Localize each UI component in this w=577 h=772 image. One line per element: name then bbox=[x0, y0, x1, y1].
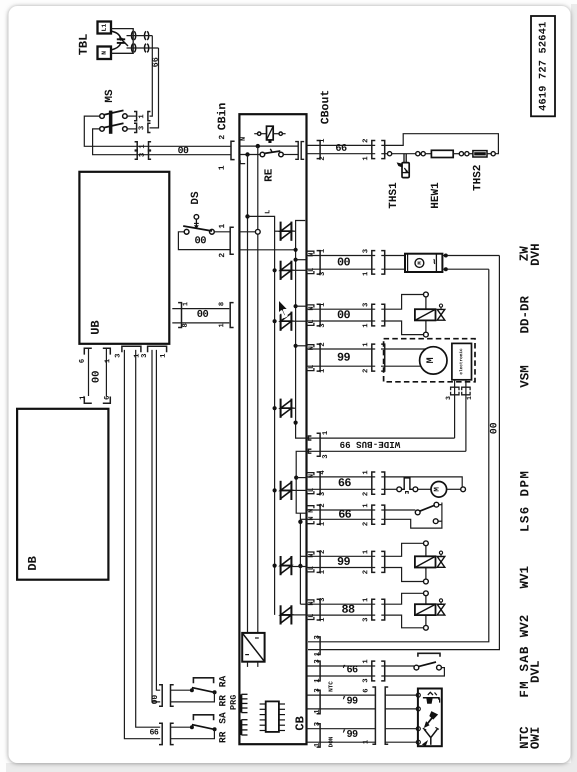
svg-text:MS: MS bbox=[104, 89, 116, 103]
triac T2 ZW bbox=[281, 261, 307, 280]
svg-text:PRG: PRG bbox=[229, 695, 239, 710]
svg-text:N: N bbox=[308, 346, 316, 350]
svg-text:3: 3 bbox=[362, 303, 370, 307]
svg-text:1: 1 bbox=[319, 248, 327, 253]
svg-text:2: 2 bbox=[362, 139, 370, 143]
label DD-DR bbox=[518, 296, 532, 334]
svg-text:DB: DB bbox=[26, 556, 40, 570]
terminal block TBL bbox=[77, 22, 134, 60]
wire ZW return to bus rails, cable 00 bbox=[308, 254, 499, 650]
wire DS to CB, cable 00 bbox=[178, 224, 233, 258]
svg-text:NTC: NTC bbox=[327, 681, 334, 692]
connector ZW pins N1 L3 cable 00 bbox=[307, 248, 385, 276]
mouse cursor bbox=[278, 298, 289, 317]
svg-text:3: 3 bbox=[362, 618, 370, 622]
svg-text:L1: L1 bbox=[101, 24, 108, 32]
wire N rail bbox=[255, 146, 260, 633]
triac T5 DPM bbox=[281, 481, 307, 500]
sensor block NTC OWI bbox=[416, 689, 442, 747]
svg-text:1: 1 bbox=[319, 521, 327, 526]
svg-text:WV1: WV1 bbox=[518, 566, 532, 589]
svg-text:UB: UB bbox=[89, 320, 103, 334]
svg-text:1: 1 bbox=[466, 396, 473, 400]
thermal fuse THS2 bbox=[459, 151, 495, 191]
svg-text:DVH: DVH bbox=[529, 243, 543, 266]
svg-text:1: 1 bbox=[79, 395, 87, 400]
connector electronic pins 3,1 bbox=[445, 380, 473, 452]
thermostat THS1 bbox=[381, 152, 415, 209]
svg-text:WV2: WV2 bbox=[518, 615, 532, 638]
heater element HEW1 bbox=[416, 150, 460, 208]
svg-text:1: 1 bbox=[160, 353, 168, 358]
connector VSM pins N2 L1 cable 99 bbox=[307, 342, 385, 373]
svg-text:1: 1 bbox=[319, 617, 327, 622]
svg-text:1: 1 bbox=[362, 503, 370, 508]
svg-text:HEW1: HEW1 bbox=[430, 182, 442, 209]
connector PRG programming header bbox=[229, 694, 248, 735]
svg-text:LS6 DPM: LS6 DPM bbox=[518, 470, 532, 532]
svg-text:DS: DS bbox=[190, 191, 202, 205]
svg-text:00: 00 bbox=[488, 422, 499, 434]
svg-text:1: 1 bbox=[218, 323, 226, 327]
connector CBout pins 1,2 cable 66 bbox=[307, 90, 385, 161]
triac T1 bbox=[281, 222, 296, 241]
connector DON pins 3,1 cable 99 bbox=[307, 722, 376, 747]
connector LS6 pins N2 N1 cable 66 bbox=[307, 503, 385, 526]
svg-text:CB: CB bbox=[293, 716, 307, 730]
svg-text:66: 66 bbox=[338, 476, 352, 490]
svg-text:RR: RR bbox=[217, 731, 228, 743]
svg-text:N: N bbox=[308, 509, 316, 513]
svg-text:3: 3 bbox=[319, 272, 327, 276]
motor VSM with electronic module bbox=[381, 339, 475, 382]
svg-text:2: 2 bbox=[362, 522, 370, 526]
svg-text:RE: RE bbox=[264, 168, 276, 182]
connector UB lower pins 3,1 bbox=[114, 346, 141, 358]
svg-text:2: 2 bbox=[218, 135, 227, 140]
solenoid valve WV2 bbox=[381, 591, 445, 630]
plug-socket contacts TBL bbox=[127, 31, 159, 52]
svg-text:DVL: DVL bbox=[529, 660, 543, 683]
svg-text:SA: SA bbox=[217, 712, 228, 724]
power supply converter on CB bbox=[242, 633, 264, 667]
svg-text:3: 3 bbox=[319, 598, 327, 602]
module CB (control board) bbox=[239, 114, 307, 744]
svg-text:00: 00 bbox=[195, 235, 207, 247]
part number box 4619 727 52641 bbox=[531, 16, 555, 116]
svg-text:66: 66 bbox=[149, 728, 158, 737]
pump motor DPM bbox=[381, 477, 465, 497]
svg-text:M: M bbox=[426, 357, 437, 363]
wire triac feed line bbox=[245, 214, 280, 615]
connector WIDE-BUS pins 1,3 cable 99 bbox=[307, 430, 466, 459]
svg-text:OWI: OWI bbox=[529, 727, 543, 750]
svg-text:4619 727 52641: 4619 727 52641 bbox=[538, 22, 550, 111]
svg-text:L: L bbox=[308, 320, 316, 324]
module DB (display board) bbox=[17, 409, 108, 580]
IC microcontroller on CB bbox=[260, 701, 285, 732]
door lock switch FM bbox=[381, 653, 444, 676]
svg-text:1: 1 bbox=[362, 342, 370, 347]
triac T7 WV2 bbox=[281, 605, 307, 624]
svg-text:2: 2 bbox=[362, 492, 370, 496]
svg-text:THS1: THS1 bbox=[388, 182, 400, 209]
svg-text:00: 00 bbox=[337, 255, 351, 269]
connector UB lower pins 3,1 second bbox=[141, 346, 168, 358]
svg-text:’66: ’66 bbox=[341, 664, 358, 676]
svg-text:1: 1 bbox=[362, 659, 370, 664]
connector DD-DR pins N1 L3 cable 00 bbox=[307, 302, 385, 328]
connector DPM pins N4 L3 cable 66 bbox=[307, 470, 385, 497]
svg-text:3: 3 bbox=[362, 249, 370, 253]
svg-text:CBin: CBin bbox=[216, 103, 229, 131]
svg-text:3: 3 bbox=[319, 492, 327, 496]
svg-text:N: N bbox=[308, 553, 316, 557]
svg-text:3: 3 bbox=[362, 678, 370, 682]
svg-text:L: L bbox=[264, 210, 272, 214]
heater fan ZW bbox=[381, 254, 442, 272]
svg-text:00: 00 bbox=[337, 308, 351, 322]
svg-text:L: L bbox=[308, 566, 316, 570]
label VSM bbox=[518, 365, 532, 388]
svg-text:L: L bbox=[308, 488, 316, 492]
svg-text:2: 2 bbox=[218, 253, 227, 258]
svg-text:1: 1 bbox=[362, 597, 370, 602]
svg-text:3: 3 bbox=[319, 323, 327, 327]
module UB (user interface board) bbox=[79, 172, 169, 344]
connector CBout pins on board edge bbox=[295, 142, 304, 160]
level switch LS6 bbox=[381, 502, 442, 528]
connector WV2 pins N3 L1 cable 88 bbox=[307, 597, 385, 622]
svg-text:1: 1 bbox=[319, 138, 327, 143]
svg-text:1: 1 bbox=[218, 165, 227, 170]
wire switched N distribution bbox=[294, 221, 307, 439]
triac T6 WV1 bbox=[281, 556, 307, 575]
svg-text:1: 1 bbox=[314, 651, 322, 656]
svg-text:1: 1 bbox=[362, 323, 370, 328]
svg-text:66: 66 bbox=[338, 508, 352, 522]
svg-text:1: 1 bbox=[182, 302, 190, 306]
svg-text:L: L bbox=[308, 614, 316, 618]
svg-text:THS2: THS2 bbox=[472, 165, 484, 191]
svg-text:N: N bbox=[308, 474, 316, 478]
svg-text:8: 8 bbox=[218, 302, 226, 306]
svg-text:electronic: electronic bbox=[459, 348, 464, 375]
svg-text:N: N bbox=[240, 137, 248, 141]
svg-text:2: 2 bbox=[319, 503, 327, 507]
svg-text:1: 1 bbox=[362, 156, 370, 161]
svg-text:3: 3 bbox=[114, 354, 122, 358]
svg-text:CBout: CBout bbox=[319, 90, 332, 125]
connector ribbon 8-pole, cable 00 bbox=[172, 302, 233, 328]
svg-text:1: 1 bbox=[138, 114, 146, 119]
svg-text:RR: RR bbox=[217, 695, 228, 707]
label WV1 bbox=[518, 566, 532, 589]
svg-text:WIDE-BUS 99: WIDE-BUS 99 bbox=[340, 439, 401, 450]
svg-text:66: 66 bbox=[151, 57, 161, 67]
svg-text:M: M bbox=[434, 487, 442, 492]
triac T3 DD-DR bbox=[281, 312, 307, 331]
svg-text:L: L bbox=[308, 268, 316, 272]
svg-text:3: 3 bbox=[314, 688, 322, 692]
svg-text:99: 99 bbox=[337, 351, 351, 365]
label NTC OWI bbox=[518, 726, 543, 749]
svg-text:1: 1 bbox=[319, 569, 327, 574]
svg-text:1: 1 bbox=[319, 302, 327, 307]
svg-text:DON: DON bbox=[327, 736, 334, 747]
relay RE bbox=[254, 126, 285, 182]
svg-text:8: 8 bbox=[182, 323, 190, 327]
switch RR RA bbox=[159, 675, 228, 706]
svg-text:RA: RA bbox=[217, 675, 228, 687]
svg-text:3: 3 bbox=[322, 454, 330, 458]
svg-text:2: 2 bbox=[319, 156, 327, 160]
switch DS (door switch) bbox=[183, 191, 214, 234]
switch MS (double pole mains switch) bbox=[100, 89, 137, 134]
label WV2 bbox=[518, 615, 532, 638]
svg-text:3: 3 bbox=[445, 396, 452, 400]
wire UB to switch RR SA bbox=[124, 350, 160, 739]
svg-text:1: 1 bbox=[139, 144, 147, 149]
svg-text:L: L bbox=[308, 365, 316, 369]
wire UB to switch RR RA, cable 00 bbox=[151, 350, 160, 705]
svg-text:TBL: TBL bbox=[77, 34, 91, 56]
svg-text:1: 1 bbox=[362, 470, 370, 475]
connector CBin bbox=[216, 103, 234, 171]
svg-text:2: 2 bbox=[319, 342, 327, 346]
wire N input CB bbox=[239, 137, 298, 149]
svg-text:00: 00 bbox=[178, 145, 189, 156]
svg-text:VSM: VSM bbox=[518, 365, 532, 388]
svg-text:2: 2 bbox=[362, 570, 370, 574]
svg-text:1: 1 bbox=[362, 739, 370, 744]
svg-text:1: 1 bbox=[218, 224, 227, 229]
svg-text:3: 3 bbox=[138, 126, 146, 130]
svg-text:DD-DR: DD-DR bbox=[518, 296, 532, 334]
connector sensor block 6-pole bbox=[362, 687, 416, 744]
svg-text:3: 3 bbox=[314, 659, 322, 663]
svg-text:1: 1 bbox=[319, 368, 327, 373]
connector FM pins 3,1 cable 66 bbox=[307, 659, 385, 683]
connector UB-DB pins 6,1 / 1,6 cable 00 bbox=[79, 348, 113, 403]
connector NTC pins 3,1 cable 99 bbox=[307, 681, 376, 714]
svg-text:3: 3 bbox=[314, 635, 322, 639]
svg-text:’99: ’99 bbox=[341, 729, 358, 741]
triac T4 WIDE-BUS supply bbox=[281, 399, 296, 418]
label FM SAB DVL bbox=[518, 645, 543, 697]
svg-text:2: 2 bbox=[319, 550, 327, 554]
solenoid valve DD-DR bbox=[381, 292, 445, 337]
svg-text:1: 1 bbox=[362, 271, 370, 276]
svg-text:4: 4 bbox=[319, 470, 327, 475]
svg-text:99: 99 bbox=[337, 555, 351, 569]
svg-text:00: 00 bbox=[91, 370, 103, 383]
svg-text:N: N bbox=[308, 306, 316, 310]
wire DS switched N line bbox=[239, 249, 295, 251]
svg-text:1: 1 bbox=[322, 430, 330, 435]
label LS6 DPM bbox=[518, 470, 532, 532]
svg-text:1: 1 bbox=[362, 549, 370, 554]
svg-text:N: N bbox=[308, 253, 316, 257]
svg-text:3: 3 bbox=[314, 722, 322, 726]
relay RE contact bbox=[239, 149, 298, 164]
svg-text:3: 3 bbox=[141, 354, 149, 358]
wire TBL to MS, cable 66 bbox=[150, 36, 161, 128]
svg-text:88: 88 bbox=[341, 603, 355, 617]
svg-text:N: N bbox=[101, 51, 108, 55]
wire N line LS6 WV1 WV2 bbox=[298, 513, 306, 604]
svg-text:6: 6 bbox=[362, 688, 370, 692]
wire MS to CBin, cable 00 bbox=[84, 116, 230, 159]
svg-text:1: 1 bbox=[314, 678, 322, 683]
wire L rail bbox=[248, 155, 273, 633]
svg-text:6: 6 bbox=[79, 359, 87, 363]
svg-text:’99: ’99 bbox=[341, 695, 358, 707]
svg-text:66: 66 bbox=[335, 144, 347, 155]
wire WIDE-BUS return bbox=[294, 451, 306, 513]
svg-text:2: 2 bbox=[362, 369, 370, 373]
svg-text:3: 3 bbox=[139, 153, 147, 157]
connector WV1 pins N2 L1 cable 99 bbox=[307, 549, 385, 574]
svg-text:N: N bbox=[308, 601, 316, 605]
wire heater circuit return bbox=[381, 134, 498, 154]
connector MS pins 1,3 bbox=[134, 112, 151, 133]
wire DS sense line bbox=[239, 231, 255, 233]
switch RR SA, cable 66 bbox=[149, 712, 228, 745]
svg-text:1: 1 bbox=[314, 742, 322, 747]
connector bus return pins 3,1 bbox=[314, 635, 322, 656]
svg-text:1: 1 bbox=[314, 709, 322, 714]
svg-text:1: 1 bbox=[104, 358, 112, 363]
svg-text:N: N bbox=[308, 516, 316, 520]
solenoid valve WV1 bbox=[381, 541, 445, 584]
svg-text:00: 00 bbox=[151, 695, 160, 705]
label ZW DVH bbox=[518, 243, 543, 266]
svg-text:00: 00 bbox=[197, 309, 209, 321]
